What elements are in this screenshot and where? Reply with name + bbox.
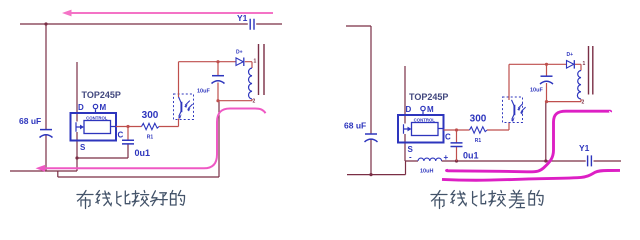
wire: source pin S (right): [405, 134, 418, 161]
wire: left rail (right circuit): [370, 26, 372, 175]
wire: pink bad routing trace (S-curve): [447, 111, 611, 172]
capacitor C2 0u1: [122, 140, 150, 158]
wire: top primary rail with Y1: [20, 23, 282, 25]
node: S junction: [75, 156, 78, 159]
svg-text:300: 300: [142, 110, 159, 121]
svg-text:R1: R1: [475, 138, 482, 144]
svg-text:D+: D+: [567, 52, 574, 58]
wire: left rail: [45, 24, 47, 171]
wire: drain pin D (right): [404, 66, 406, 124]
wire: C pin net: [116, 119, 179, 127]
wire: Y1 ground net: [442, 160, 621, 162]
wire: secondary top net (right): [509, 64, 581, 70]
node: junction top-left: [44, 22, 47, 25]
wire: bottom ground bus: [58, 176, 219, 178]
wire: pink good routing trace: [36, 109, 266, 172]
transformer core (right): [589, 46, 593, 95]
capacitor C4 0u1: [451, 143, 479, 161]
wire: 0u1 lower lead: [127, 144, 129, 158]
node: 0u1 ground tap: [455, 159, 458, 162]
capacitor C5 10uF (right): [540, 76, 553, 84]
op-amp U3: TOP245P IC body (right): [398, 92, 451, 154]
svg-text:2: 2: [582, 100, 585, 106]
svg-text:M: M: [100, 103, 107, 112]
svg-text:68 uF: 68 uF: [19, 116, 41, 126]
capacitor Y1: [237, 13, 254, 30]
node: 10uF top tap: [216, 60, 219, 63]
wire: top primary stub: [346, 25, 371, 27]
svg-text:0u1: 0u1: [463, 151, 479, 161]
inductor L2 10uH: [409, 153, 449, 175]
diode D+: [236, 50, 244, 67]
inductor L1: transformer secondary: [249, 59, 257, 105]
capacitor C_in 68uF: [19, 116, 53, 138]
svg-text:68 uF: 68 uF: [344, 121, 366, 131]
wire: pin2 net: [218, 99, 252, 101]
node: 0u1 tap (right): [455, 128, 458, 131]
svg-text:S: S: [80, 143, 86, 152]
transformer core: [259, 44, 265, 95]
resistor R1 300 (right): [470, 114, 487, 145]
capacitor C_in2 68uF: [344, 121, 378, 142]
svg-text:1: 1: [254, 59, 257, 65]
wire: 10uF leads (right): [546, 64, 548, 101]
op-amp U1: TOP245P IC body: [71, 90, 124, 152]
svg-text:Y1: Y1: [237, 13, 248, 23]
wire: secondary rail (right): [218, 101, 220, 177]
label: caption left: [77, 191, 185, 209]
wire: S net horizontal: [77, 157, 128, 159]
resistor R1 300: [142, 110, 159, 141]
transistor U4: optocoupler photo-transistor (right): [503, 97, 526, 123]
svg-text:S: S: [408, 145, 414, 154]
transistor U2: optocoupler photo-transistor: [174, 94, 194, 120]
node: rail ground tap: [544, 159, 547, 162]
wire: bottom-left return: [10, 170, 77, 172]
capacitor C3 10uF: [212, 76, 225, 84]
wire: drain pin D: [76, 62, 78, 122]
wire: opto collector: [178, 62, 180, 97]
label: caption right: [431, 190, 543, 208]
svg-text:TOP245P: TOP245P: [409, 92, 448, 102]
wire: secondary top net: [179, 62, 253, 68]
wire: source pin S: [76, 132, 78, 171]
svg-text:C: C: [445, 133, 451, 142]
inductor L3: transformer secondary (right): [577, 61, 585, 106]
svg-text:C: C: [118, 131, 124, 140]
node: 10uF top tap (right): [545, 63, 548, 66]
svg-text:10uF: 10uF: [530, 88, 543, 94]
wire: C pin net (right): [444, 122, 510, 130]
wire: bottom ground stub: [347, 161, 406, 175]
svg-text:D: D: [406, 105, 412, 114]
wire: 10uF leads: [217, 62, 219, 101]
svg-text:10uF: 10uF: [197, 89, 210, 95]
wire: pink return-path arrow (top): [62, 10, 273, 17]
node: 0u1 tap: [126, 125, 129, 128]
svg-text:R1: R1: [147, 135, 154, 141]
svg-text:10uH: 10uH: [420, 169, 433, 175]
node: pin2 junction: [216, 99, 219, 102]
wire: 0u1 leads (right): [456, 130, 458, 161]
wire: opto collector (right): [508, 64, 510, 100]
capacitor Y1 (right): [579, 143, 591, 166]
diode D+ (right): [567, 52, 575, 69]
svg-text:TOP245P: TOP245P: [82, 90, 121, 100]
svg-text:M: M: [427, 105, 434, 114]
svg-text:D+: D+: [236, 50, 243, 56]
svg-text:CONTROL: CONTROL: [414, 117, 436, 122]
svg-text:300: 300: [470, 114, 487, 125]
svg-text:0u1: 0u1: [135, 148, 151, 158]
svg-text:Y1: Y1: [579, 143, 590, 153]
svg-text:CONTROL: CONTROL: [86, 115, 108, 120]
node: pin2 junction (right): [545, 100, 548, 103]
wire: step riser: [57, 171, 59, 177]
wire: pin2 net (right): [547, 99, 582, 102]
node: rail-ground junction: [369, 173, 372, 176]
svg-text:2: 2: [253, 99, 256, 105]
wire: secondary rail (right circuit): [545, 102, 547, 161]
wire: pink bad routing trace (bottom wavy): [442, 170, 620, 180]
wire: 0u1 upper lead: [127, 127, 129, 141]
svg-text:D: D: [78, 103, 84, 112]
svg-text:1: 1: [583, 61, 586, 67]
